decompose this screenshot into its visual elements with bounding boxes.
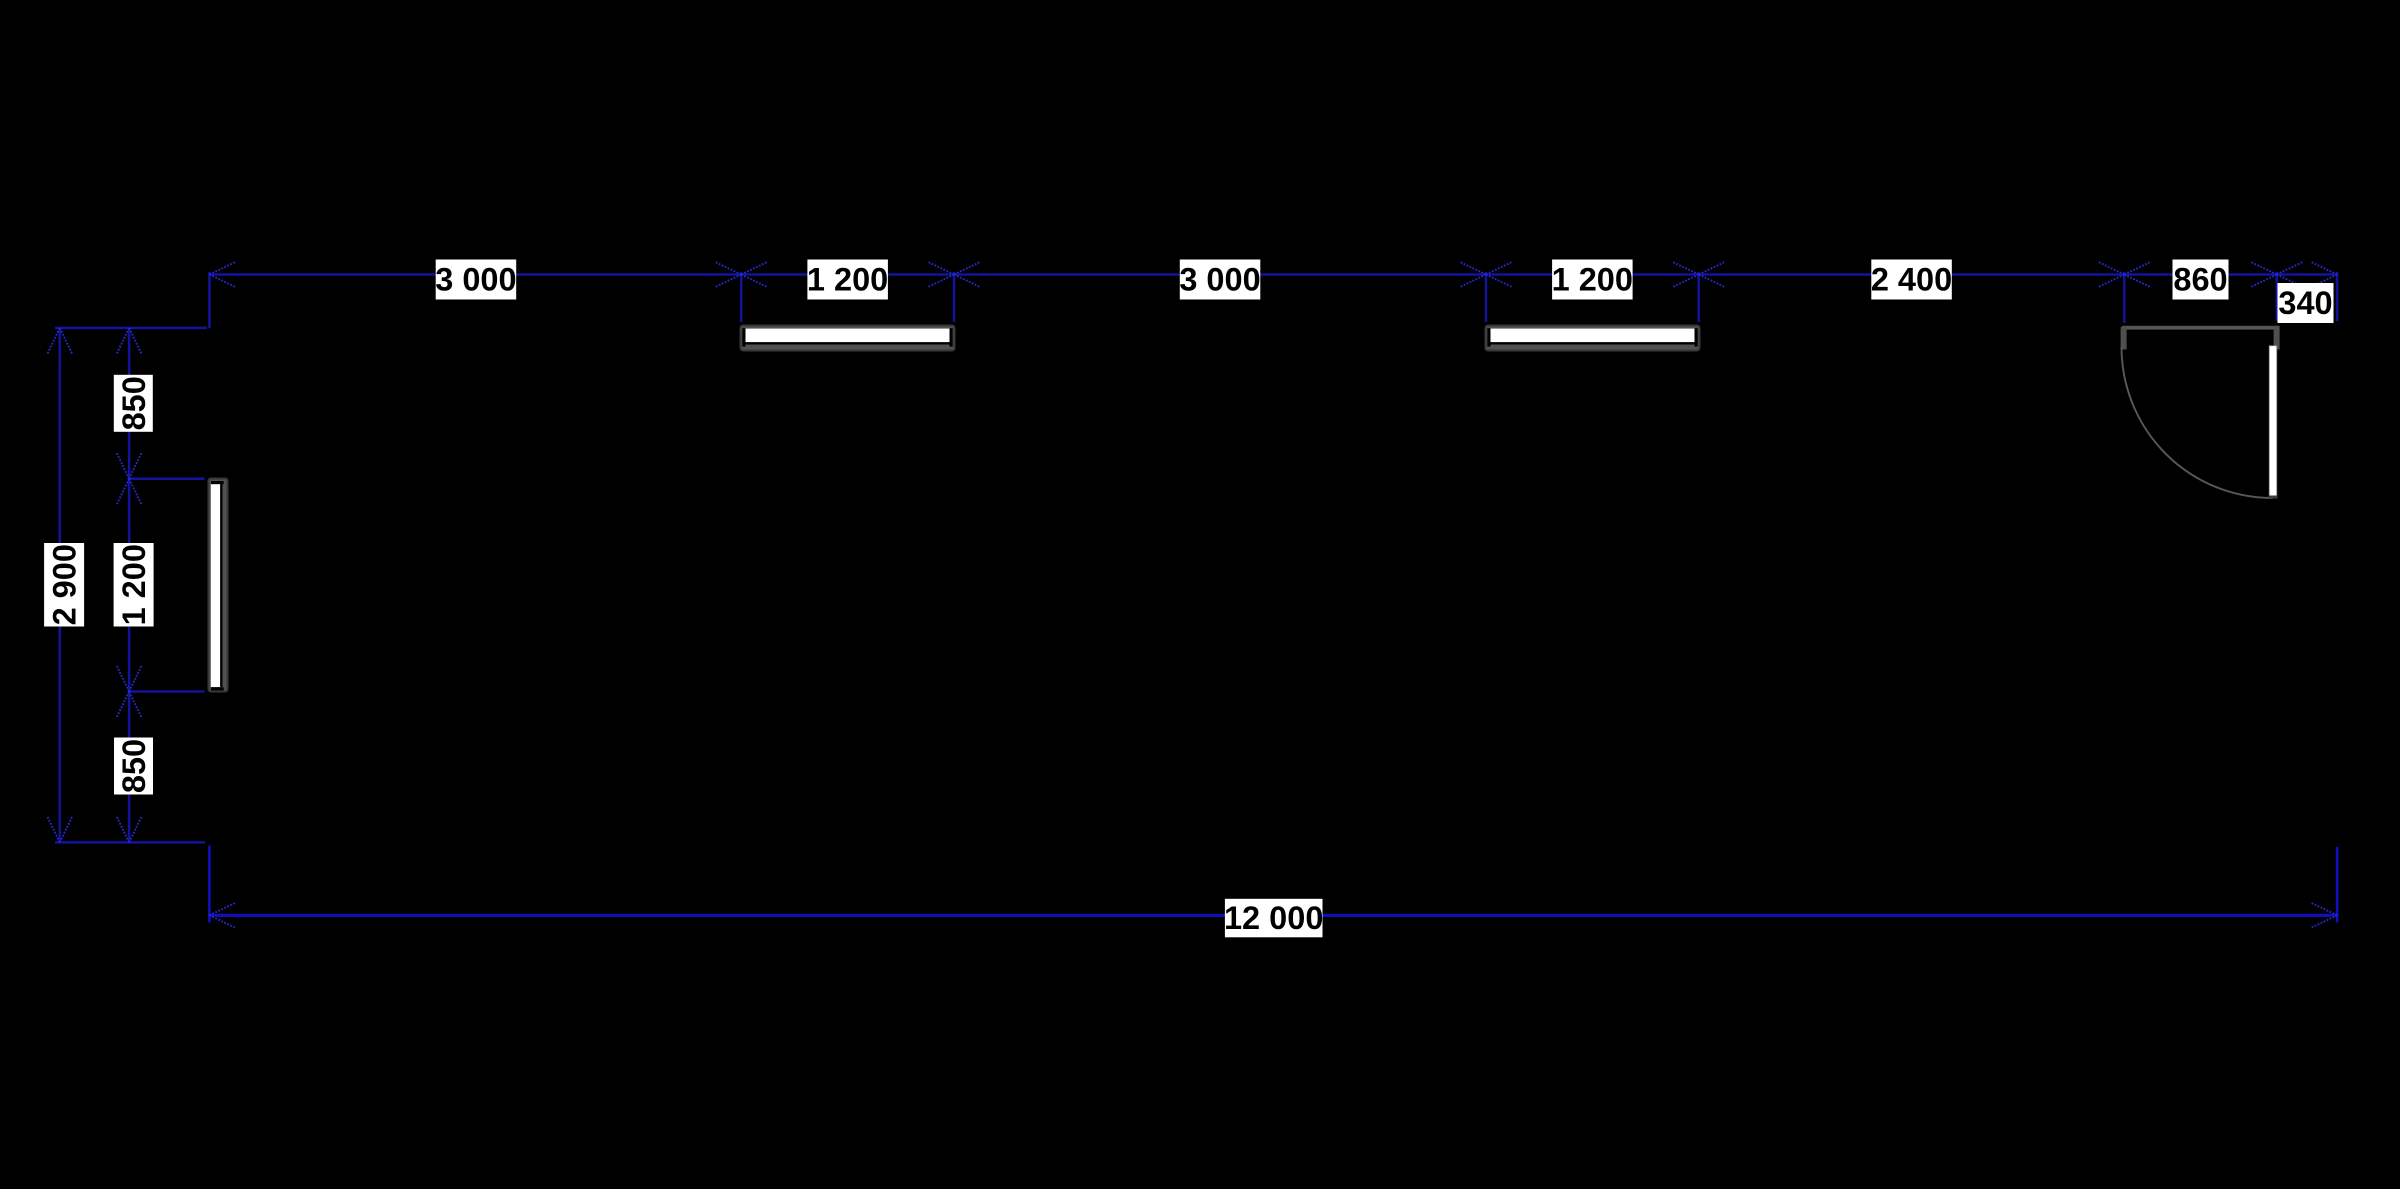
svg-text:2 900: 2 900 [47,544,83,625]
svg-text:2 400: 2 400 [1871,262,1952,298]
svg-text:850: 850 [116,376,152,430]
svg-text:1 200: 1 200 [116,544,152,625]
svg-text:340: 340 [2278,285,2332,321]
svg-text:860: 860 [2173,262,2227,298]
svg-text:12 000: 12 000 [1224,900,1323,936]
svg-text:3 000: 3 000 [1179,262,1260,298]
svg-text:850: 850 [116,739,152,793]
svg-text:1 200: 1 200 [807,262,888,298]
svg-text:1 200: 1 200 [1552,262,1633,298]
svg-text:3 000: 3 000 [435,262,516,298]
